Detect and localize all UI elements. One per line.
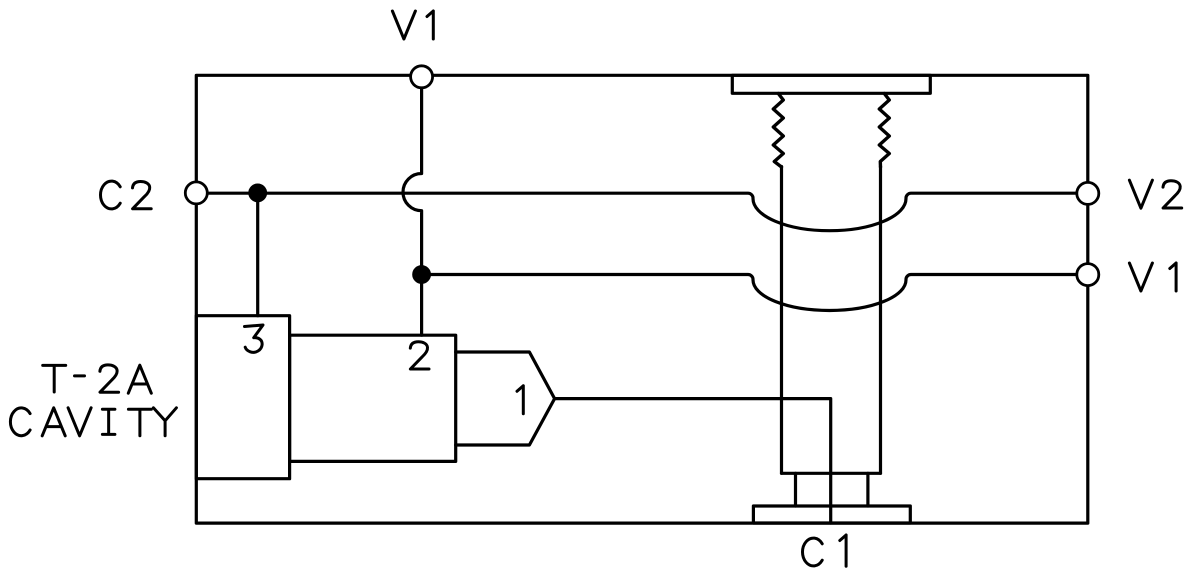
wire node1 down to coil box	[256, 193, 259, 316]
cartridge tip stub left	[794, 473, 797, 506]
coil rear section box (terminal 3)	[196, 316, 289, 479]
label CAVITY	[10, 408, 176, 436]
label T-2A	[43, 365, 152, 393]
junction dot node1	[250, 185, 266, 201]
wire pin1 to C1 port	[555, 399, 831, 523]
wire C2 to V2 with gallery cup	[196, 193, 1088, 231]
label 1	[517, 386, 523, 414]
top flange of cartridge plug	[732, 75, 930, 93]
cartridge tip stub right	[866, 473, 869, 506]
label 3	[245, 325, 264, 352]
coil mid section box (terminal 2)	[290, 335, 456, 461]
label V1 right	[1129, 263, 1176, 291]
label C1	[802, 535, 846, 566]
wire V1 top port down with hop over C2 line	[403, 77, 422, 335]
cartridge nose bottom	[782, 472, 881, 475]
coil nose section (terminal 1)	[456, 352, 555, 445]
label C2	[100, 181, 151, 209]
cartridge body left wall	[780, 167, 783, 474]
port circle V1 right	[1077, 264, 1099, 286]
manifold body outline	[196, 75, 1088, 523]
thread zigzag left	[773, 94, 783, 168]
label V2	[1129, 180, 1181, 208]
label V1 top	[392, 11, 433, 39]
cartridge body right wall	[879, 167, 882, 474]
junction dot node2	[414, 267, 430, 283]
thread zigzag right	[879, 94, 889, 168]
port circle V2 right	[1077, 182, 1099, 204]
bottom seat flange at C1	[753, 506, 910, 523]
wire node2 to V1 with gallery cup	[422, 274, 1088, 310]
port circle V1 top	[411, 66, 433, 88]
label 2	[410, 342, 429, 369]
port circle C2 left	[185, 182, 207, 204]
